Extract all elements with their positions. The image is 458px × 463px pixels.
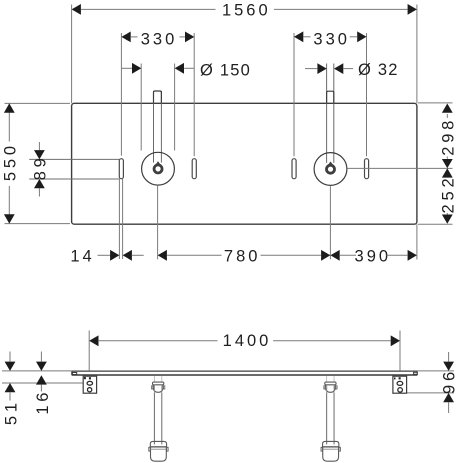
- svg-text:330: 330: [141, 30, 178, 48]
- ext slot B up: [193, 33, 195, 156]
- ext 550 bottom: [5, 223, 71, 225]
- drain fitting U: [326, 385, 336, 393]
- ext 298 top right: [418, 102, 453, 104]
- svg-text:390: 390: [355, 247, 392, 265]
- shelf rail lines left: [29, 158, 119, 160]
- ext 550 top: [5, 102, 71, 104]
- ext left edge up: [71, 5, 73, 104]
- svg-text:298: 298: [439, 117, 457, 156]
- pipe: [326, 392, 328, 444]
- ext slot A up: [120, 33, 122, 156]
- wall / slab top reference line: [2, 370, 72, 372]
- siphon cup: [323, 447, 339, 461]
- tap hole block left: [154, 91, 162, 103]
- drain circle right: [314, 153, 347, 186]
- ext slot D up: [366, 33, 368, 156]
- svg-text:14: 14: [70, 247, 94, 265]
- ext drain right center down: [329, 186, 331, 259]
- 51 reference line: [2, 382, 83, 384]
- wall bracket right: [393, 376, 407, 393]
- svg-text:Ø 150: Ø 150: [200, 61, 251, 79]
- svg-text:780: 780: [224, 247, 261, 265]
- ext circle left edges: [140, 64, 142, 151]
- pipe: [153, 392, 155, 444]
- console slab front edge: [72, 374, 417, 376]
- svg-text:252: 252: [439, 175, 457, 214]
- svg-text:330: 330: [313, 30, 350, 48]
- ext 252 bottom right: [418, 223, 453, 225]
- svg-text:96: 96: [441, 368, 458, 394]
- drain fitting U: [153, 385, 163, 393]
- slot D: [365, 159, 369, 179]
- siphon cup: [151, 447, 167, 461]
- drain fitting right: [328, 162, 333, 165]
- tap hole channel left: [153, 91, 155, 163]
- svg-text:89: 89: [31, 154, 49, 180]
- tap hole channel right: [326, 64, 328, 163]
- drain fitting left: [156, 161, 161, 164]
- siphon collar: [323, 441, 339, 447]
- console top view rectangle 1560x550: [72, 103, 417, 224]
- slot C: [292, 159, 296, 179]
- tap hole block right: [327, 91, 334, 103]
- svg-text:16: 16: [34, 389, 52, 415]
- ext drain left center down: [157, 186, 159, 259]
- drain circle left Ø150: [142, 152, 175, 185]
- ext middle right (basin centerline): [347, 167, 452, 169]
- svg-text:550: 550: [1, 142, 19, 181]
- siphon collar: [150, 441, 166, 447]
- ext pair for 14: [118, 179, 120, 259]
- svg-text:1400: 1400: [223, 332, 272, 350]
- pipe stubs above fitting: [326, 376, 328, 382]
- ext slot C up: [293, 33, 295, 156]
- svg-text:1560: 1560: [222, 1, 271, 19]
- wall bracket left: [83, 376, 96, 393]
- slot A: [119, 159, 123, 179]
- svg-text:Ø 32: Ø 32: [358, 61, 399, 79]
- ext right edge up: [416, 5, 418, 104]
- 96 reference line: [407, 392, 454, 394]
- ext right edge down: [416, 224, 418, 259]
- slot B: [192, 159, 196, 179]
- svg-text:51: 51: [2, 399, 20, 425]
- pipe stubs above fitting: [153, 376, 155, 382]
